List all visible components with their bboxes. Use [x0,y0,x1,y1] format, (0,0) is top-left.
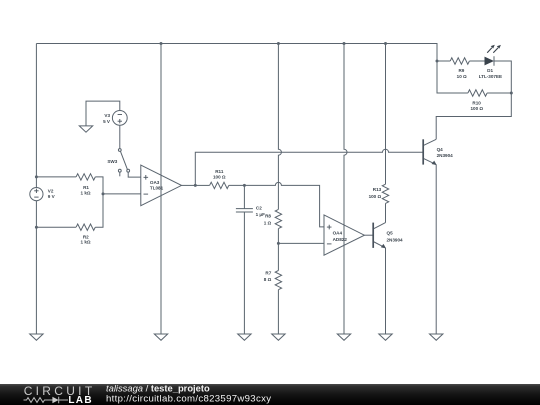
svg-text:R7: R7 [265,270,271,275]
svg-text:2N3904: 2N3904 [437,153,454,158]
svg-text:talissaga / teste_projeto: talissaga / teste_projeto [106,382,210,393]
svg-text:R10: R10 [472,100,481,105]
svg-text:LAB: LAB [68,395,92,405]
svg-text:1 kΩ: 1 kΩ [81,191,91,196]
svg-text:R11: R11 [215,169,224,174]
svg-text:R8: R8 [265,214,271,219]
svg-text:AD822: AD822 [333,237,348,242]
svg-text:D1: D1 [487,68,493,73]
svg-text:9 V: 9 V [48,194,56,199]
svg-text:100 Ω: 100 Ω [470,106,483,111]
svg-text:R13: R13 [373,187,382,192]
svg-text:Q4: Q4 [437,147,444,152]
svg-text:10 Ω: 10 Ω [457,74,467,79]
svg-text:1 kΩ: 1 kΩ [81,239,91,244]
svg-text:LTL-307EE: LTL-307EE [479,74,502,79]
svg-text:5 V: 5 V [103,119,111,124]
svg-text:R9: R9 [458,68,464,73]
svg-text:100 Ω: 100 Ω [369,194,382,199]
svg-text:1 Ω: 1 Ω [264,220,272,225]
svg-text:OA3: OA3 [150,180,160,185]
svg-text:8 Ω: 8 Ω [264,277,272,282]
svg-text:1 µF: 1 µF [256,212,265,217]
svg-text:C2: C2 [256,205,262,210]
svg-text:2N3904: 2N3904 [387,238,404,243]
svg-text:R1: R1 [83,185,89,190]
svg-text:Q5: Q5 [387,231,394,236]
svg-text:TL081: TL081 [150,186,164,191]
svg-text:SW3: SW3 [107,159,117,164]
svg-text:V3: V3 [104,113,110,118]
svg-text:V2: V2 [48,188,54,193]
svg-text:100 Ω: 100 Ω [213,174,226,179]
svg-text:OA4: OA4 [333,231,343,236]
svg-text:http://circuitlab.com/c823597w: http://circuitlab.com/c823597w93cxy [106,393,271,404]
